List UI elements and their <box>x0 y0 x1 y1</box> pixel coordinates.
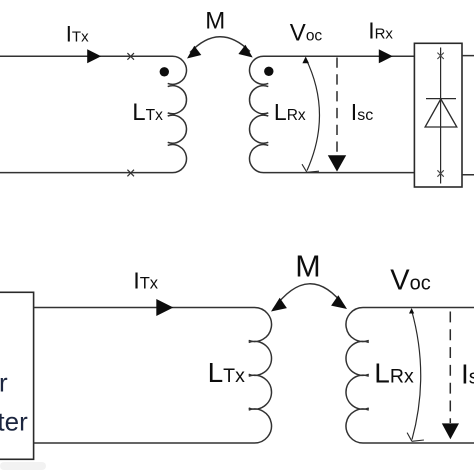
svg-text:ter: ter <box>0 406 28 436</box>
svg-text:r: r <box>0 367 8 397</box>
svg-text:M: M <box>295 250 320 284</box>
svg-text:M: M <box>205 8 225 35</box>
